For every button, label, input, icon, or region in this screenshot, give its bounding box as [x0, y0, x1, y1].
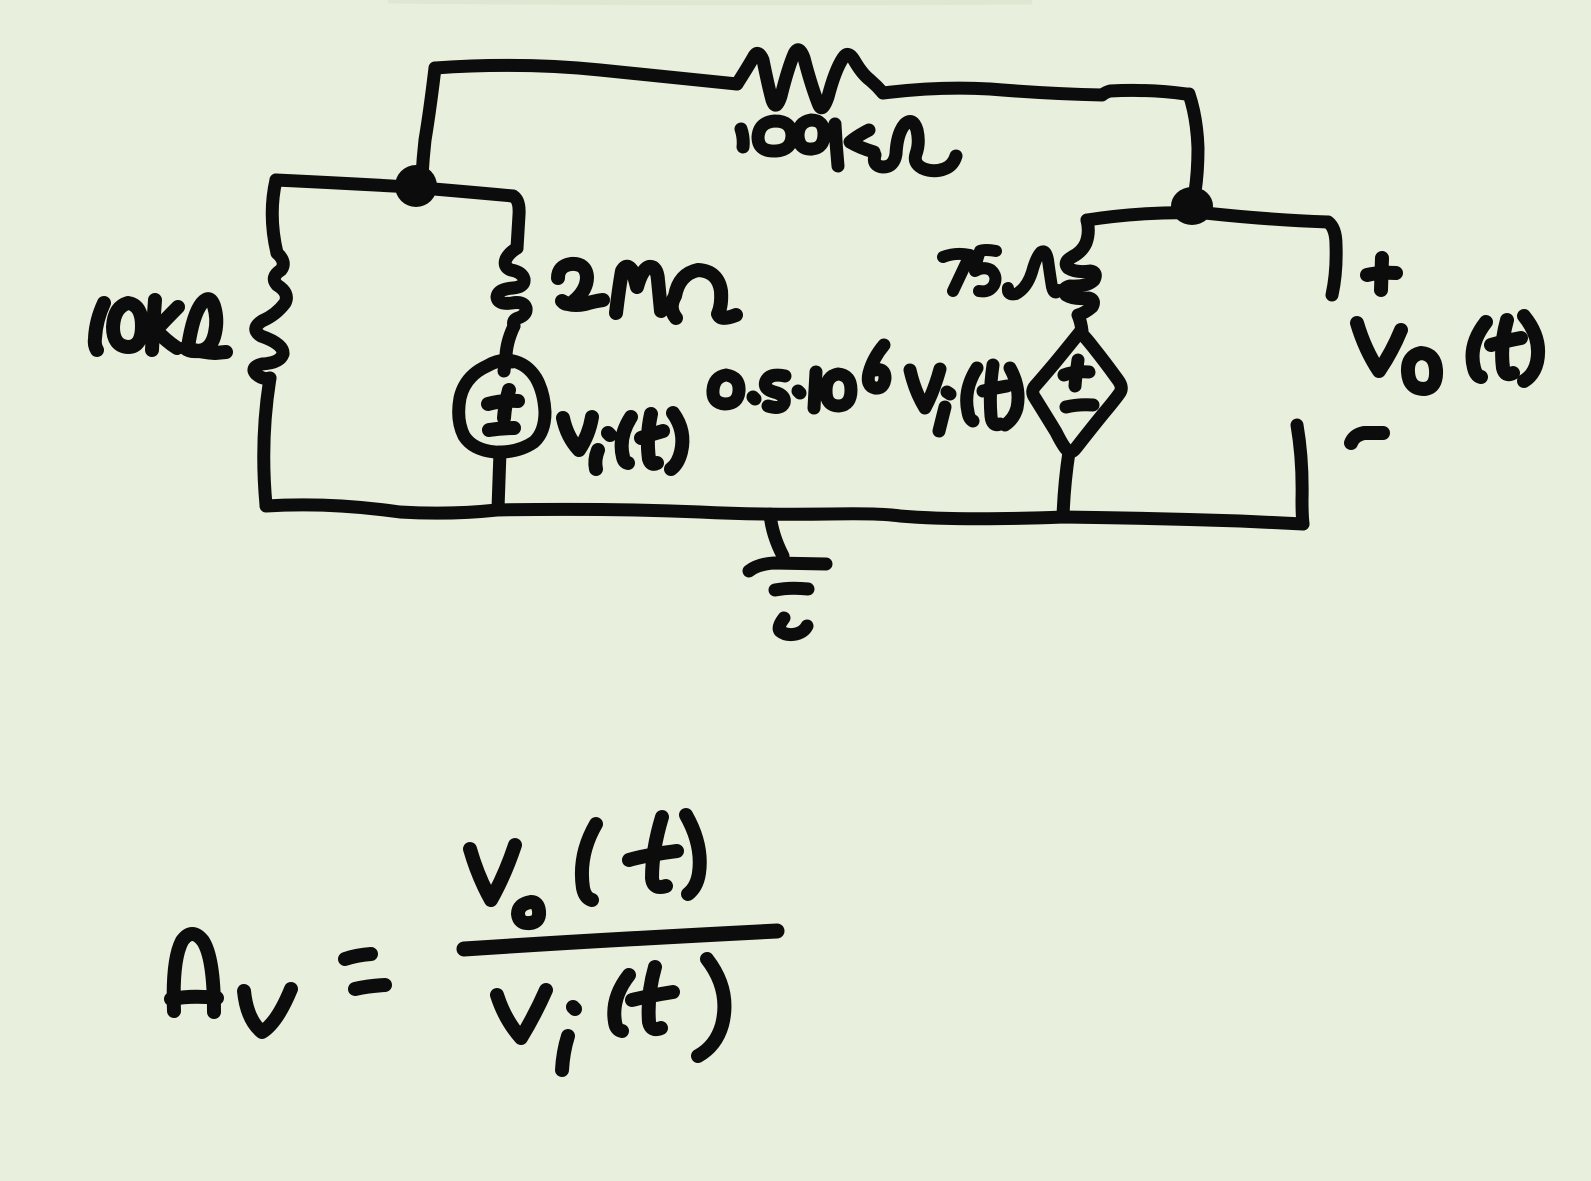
- label Vo(t) output: [1357, 316, 1538, 389]
- wire: feedback vertical down to node B: [1189, 94, 1198, 192]
- label 2MOhm: [558, 264, 736, 318]
- label 0.5e6 Vi(t): [713, 345, 1018, 431]
- formula numerator Vo(t): [470, 815, 700, 923]
- resistor R3 2M squiggle: [497, 248, 526, 326]
- wire: 2M branch vertical upper: [513, 196, 519, 248]
- wire: left loop top: [276, 180, 513, 196]
- formula equals: [345, 954, 371, 959]
- label 75Ohm: [943, 250, 1059, 294]
- formula denominator Vi(t): [497, 959, 724, 1070]
- dependent source E1 plus: [1075, 360, 1078, 386]
- label 10kOhm: [95, 299, 226, 353]
- formula A_v: [171, 934, 291, 1032]
- ground curl: [779, 618, 807, 635]
- dependent source E1 diamond body: [1033, 332, 1122, 452]
- wire: feedback top horizontal left segment: [435, 65, 737, 84]
- label plus output: [1381, 258, 1382, 290]
- ground stem: [770, 514, 783, 556]
- ground bar2: [775, 588, 808, 590]
- wire: left branch upper: [272, 180, 277, 253]
- label 100kOhm: [741, 120, 956, 171]
- node B junction dot: [1171, 187, 1213, 225]
- resistor R4 75 squiggle with hook: [1064, 220, 1095, 331]
- node A junction dot: [395, 165, 437, 207]
- wire: feedback top horizontal right segment: [883, 88, 1186, 95]
- resistor R1 10k squiggle: [254, 253, 286, 379]
- label Vi(t) left: [563, 413, 682, 469]
- wire: diamond to bottom: [1063, 452, 1069, 517]
- label minus output: [1351, 433, 1383, 443]
- dependent source E1 minus: [1066, 405, 1093, 407]
- ground bar1: [749, 563, 826, 571]
- source V1 Vi(t) body: [459, 361, 545, 452]
- formula fraction bar: [464, 931, 777, 949]
- wire: right loop top: [1087, 213, 1328, 222]
- wire: right branch upper: [1328, 222, 1336, 295]
- resistor R2 100k zigzag: [737, 50, 883, 108]
- source V1 plus: [504, 390, 509, 418]
- faint smudge top edge: [390, 1, 1030, 3]
- wire: feedback vertical from node A up: [422, 68, 435, 176]
- wire: right branch lower: [1297, 425, 1303, 524]
- wire: bottom rail: [266, 505, 1303, 524]
- wire: source Vi to bottom: [498, 452, 500, 508]
- source V1 minus: [489, 428, 514, 430]
- wire: 2M to source Vi: [506, 326, 514, 362]
- wire: left branch lower: [264, 378, 270, 505]
